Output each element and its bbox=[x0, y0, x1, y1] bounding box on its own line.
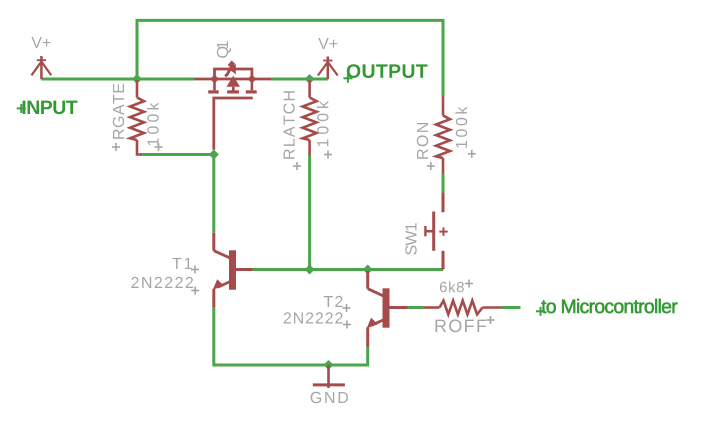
label to Microcontroller bbox=[541, 299, 677, 313]
label GND bbox=[311, 392, 348, 403]
wire emitter ground run bbox=[214, 307, 368, 365]
wire base net horizontal bbox=[252, 268, 443, 271]
label RGATE bbox=[113, 84, 124, 139]
label Q1 bbox=[217, 41, 231, 57]
node INPUT label origin cross bbox=[17, 104, 26, 113]
ground GND symbol bbox=[313, 365, 345, 388]
node OUTPUT label origin cross bbox=[343, 74, 352, 83]
resistor ROFF 6k8 bbox=[424, 301, 502, 315]
label T2 bbox=[324, 296, 343, 307]
label SW1 bbox=[405, 223, 416, 255]
transistor T2 2N2222 bbox=[368, 271, 408, 347]
node junction RLATCH top bbox=[305, 74, 315, 84]
wire output rail right bbox=[271, 78, 328, 81]
label OUTPUT bbox=[347, 64, 428, 78]
transistor T1 2N2222 bbox=[214, 233, 253, 307]
label V+ right bbox=[318, 38, 337, 49]
node junction RLATCH-base bbox=[305, 265, 315, 275]
resistor RGATE bbox=[130, 80, 144, 155]
wire T2 base to ROFF bbox=[407, 306, 423, 309]
origin crosses gray bbox=[112, 143, 495, 329]
label T1 bbox=[172, 258, 191, 269]
label 6k8 bbox=[440, 281, 464, 292]
label RLATCH bbox=[283, 91, 294, 158]
supply V+ right symbol bbox=[318, 57, 338, 80]
wire input rail left bbox=[41, 78, 195, 81]
node junction GND bbox=[324, 360, 334, 370]
wire RLATCH bottom down bbox=[308, 155, 311, 270]
transistor Q1 p-mosfet bbox=[195, 61, 272, 150]
label T2 value 2N2222 bbox=[284, 312, 343, 323]
label 100k RON bbox=[455, 107, 467, 148]
Q1 body diode triangle bbox=[229, 64, 236, 74]
supply V+ left symbol bbox=[32, 56, 52, 79]
label 100k RGATE bbox=[147, 103, 159, 146]
node junction RGATE top bbox=[132, 74, 142, 84]
node junction gate-RGATE bbox=[209, 150, 219, 160]
resistor RON bbox=[436, 96, 450, 174]
node Q1 drain dot bbox=[248, 75, 257, 84]
wire top rail loop bbox=[137, 20, 443, 96]
node to-Microcontroller label origin cross bbox=[536, 307, 545, 316]
label T1 value 2N2222 bbox=[131, 277, 193, 288]
switch SW1 bbox=[425, 193, 448, 270]
label INPUT bbox=[23, 101, 78, 115]
wire RGATE bottom to gate node bbox=[141, 155, 214, 233]
label V+ left bbox=[31, 37, 50, 48]
wire ROFF to microcontroller bbox=[501, 306, 520, 309]
node Q1 source dot bbox=[210, 75, 219, 84]
Q1 substrate arrow bbox=[227, 76, 241, 87]
label 100k RLATCH bbox=[317, 101, 329, 146]
node junction T2 collector bbox=[363, 265, 373, 275]
resistor RLATCH bbox=[303, 80, 317, 155]
label ROFF bbox=[436, 319, 487, 332]
label RON bbox=[417, 123, 428, 159]
wire RON to SW1 bbox=[442, 174, 445, 193]
